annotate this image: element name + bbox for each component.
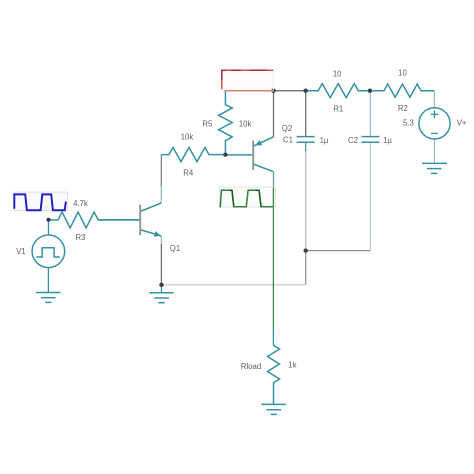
wire C1 bottom vertical [305, 150, 307, 251]
wire Rload top lead [272, 329, 274, 345]
resistor R1 [306, 84, 370, 98]
wire C2 top vertical [369, 91, 371, 136]
node V1-R3 [47, 218, 51, 222]
transistor Q1 [98, 203, 161, 237]
ground below V+ [422, 163, 447, 173]
scope window red (supply rail) [222, 70, 273, 91]
node C1-C2 bottom [304, 248, 308, 252]
scope window green (Q2 collector output) [219, 187, 275, 207]
capacitor C1 [297, 137, 315, 151]
wire Q2 emitter to rail [273, 91, 275, 137]
svg-text:V1: V1 [16, 247, 26, 256]
resistor R3 [49, 212, 141, 228]
scope trace blue square wave [14, 194, 66, 210]
wire R4 left down to Q1 collector lower [160, 186, 162, 203]
node R1-R2-C2 [368, 89, 372, 93]
wire Q2 collector lead [273, 172, 275, 188]
voltage source V+ [419, 108, 450, 139]
resistor R4 [161, 147, 223, 161]
resistor Rload [268, 345, 280, 404]
scope window blue (V1 input) [14, 192, 67, 211]
node rail-C1 [304, 89, 308, 93]
capacitor C2 [361, 137, 379, 143]
wire Q1 emitter down to ground net [160, 244, 162, 285]
ground below Rload [261, 404, 286, 414]
svg-text:C1: C1 [283, 136, 293, 145]
scope trace green overlap marks [229, 190, 261, 207]
ground below V1 [36, 293, 61, 303]
svg-text:10k: 10k [181, 133, 194, 142]
svg-text:Rload: Rload [241, 362, 261, 371]
node rail-Q2 emitter [271, 89, 275, 93]
svg-text:10: 10 [333, 70, 342, 79]
svg-text:10k: 10k [239, 119, 252, 128]
svg-text:R4: R4 [183, 169, 194, 178]
svg-text:Q1: Q1 [170, 244, 180, 253]
svg-text:1µ: 1µ [320, 136, 329, 145]
transistor Q2 [225, 137, 273, 172]
svg-text:1k: 1k [288, 361, 296, 370]
svg-text:R5: R5 [202, 119, 213, 128]
resistor R5 [219, 91, 233, 153]
node R4-R5-Q2 base [223, 153, 227, 157]
wire V+ stub top [433, 91, 435, 108]
svg-text:10: 10 [398, 69, 407, 78]
pulse source V1 [48, 220, 50, 235]
wire C1 top vertical [305, 91, 307, 136]
wire C1 node to C2 bottom horizontal [306, 250, 371, 252]
scope trace green square wave [220, 190, 274, 207]
svg-text:C2: C2 [348, 136, 358, 145]
scope trace red overlap marks [222, 70, 268, 80]
svg-text:5.3: 5.3 [403, 119, 414, 128]
wire Q1 emitter lead [160, 236, 162, 245]
svg-text:R2: R2 [398, 104, 408, 113]
ground below Q1 [149, 293, 174, 303]
node Q1 emitter to ground stub [161, 285, 163, 293]
wire C2 bottom vertical [369, 142, 371, 250]
svg-text:Q2: Q2 [282, 124, 292, 133]
svg-text:V+: V+ [457, 119, 467, 128]
node Q1 emitter-ground [159, 283, 163, 287]
scope trace red high level [222, 70, 273, 89]
scope trace red baseline [224, 90, 273, 92]
svg-text:R3: R3 [76, 233, 86, 242]
wire C1 node down to ground net [305, 251, 307, 285]
svg-text:1µ: 1µ [383, 136, 392, 145]
wire ground net horizontal to Q1 emitter [162, 284, 306, 286]
wire Q2 collector down to Rload (probe colored) [272, 188, 274, 330]
wire V+ stub bottom [433, 139, 435, 163]
svg-text:4.7k: 4.7k [73, 199, 88, 208]
resistor R2 [372, 84, 435, 97]
wire top rail R5 to C1 node [225, 90, 305, 92]
wire R4 left down to Q1 collector upper [160, 155, 162, 187]
svg-text:R1: R1 [333, 104, 343, 113]
